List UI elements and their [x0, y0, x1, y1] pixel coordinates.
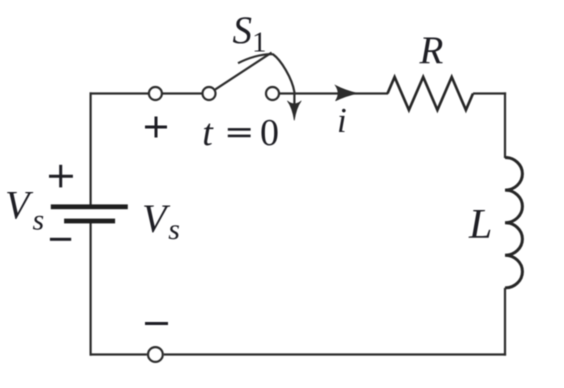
battery + polarity: [49, 165, 73, 188]
svg-text:1: 1: [252, 27, 267, 59]
svg-text:i: i: [337, 101, 347, 140]
wire right vertical lower: [504, 288, 506, 356]
wire top-left horizontal: [90, 92, 149, 94]
label Vs left: [5, 183, 44, 237]
battery source Vs bottom plate: [64, 219, 115, 224]
wire left vertical upper: [89, 92, 91, 204]
label i: [337, 101, 347, 140]
inductor L: [505, 158, 522, 288]
label L: [468, 202, 492, 248]
svg-text:L: L: [468, 202, 492, 248]
wire switch to resistor: [279, 92, 388, 94]
svg-text:t: t: [202, 112, 214, 154]
svg-text:R: R: [419, 29, 444, 72]
bottom terminal node: [148, 347, 163, 362]
switch pivot terminal node b: [203, 87, 216, 100]
svg-text:s: s: [33, 204, 45, 237]
wire right vertical upper: [504, 92, 506, 158]
svg-text:V: V: [142, 196, 171, 241]
switch S1 blade: [215, 53, 271, 90]
switch terminal node a: [149, 87, 162, 100]
label Vs right: [142, 196, 180, 246]
wire left vertical lower: [89, 221, 91, 356]
svg-text:S: S: [233, 9, 253, 52]
svg-text:V: V: [5, 183, 34, 228]
svg-text:0: 0: [260, 112, 279, 154]
wire between switch terminals: [162, 92, 202, 94]
current direction arrowhead: [336, 86, 358, 101]
switch S1 closing motion arc arrow: [238, 54, 301, 120]
svg-text:s: s: [168, 213, 180, 246]
battery - polarity: [50, 238, 71, 241]
battery source Vs top plate: [51, 204, 128, 209]
wire bottom left horizontal: [90, 353, 147, 355]
label - terminal bottom: [145, 322, 168, 325]
label t = 0: [202, 112, 279, 154]
label R: [419, 29, 444, 72]
label + terminal top: [145, 117, 167, 138]
wire resistor to top-right corner: [473, 92, 506, 94]
label S1: [233, 9, 267, 58]
resistor R: [388, 77, 474, 110]
switch terminal node c: [266, 87, 279, 100]
wire bottom right horizontal: [164, 353, 506, 355]
